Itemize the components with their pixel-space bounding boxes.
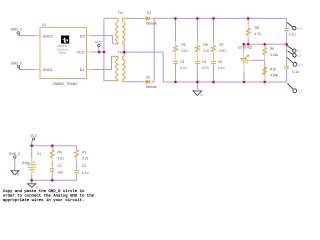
svg-text:R6: R6 <box>203 43 207 47</box>
svg-text:0_5: 0_5 <box>297 54 302 57</box>
svg-text:order to connect the Analog GN: order to connect the Analog GND to the <box>3 193 95 198</box>
svg-text:SN6501_TRANS: SN6501_TRANS <box>53 82 79 86</box>
svg-text:0.1u: 0.1u <box>293 70 300 74</box>
svg-text:0: 0 <box>201 93 203 97</box>
svg-text:Tx2: Tx2 <box>118 51 124 55</box>
svg-text:C1: C1 <box>58 164 62 168</box>
svg-text:0.1u: 0.1u <box>82 171 89 175</box>
svg-text:VCC: VCC <box>30 134 38 138</box>
svg-text:10u: 10u <box>58 170 64 174</box>
svg-text:Dbreak: Dbreak <box>146 85 157 89</box>
svg-text:R4: R4 <box>58 150 62 154</box>
svg-text:0: 0 <box>36 185 38 189</box>
svg-text:GND_0: GND_0 <box>9 152 20 156</box>
svg-text:0.01: 0.01 <box>82 156 89 160</box>
svg-text:D2: D2 <box>80 34 85 38</box>
svg-text:R7: R7 <box>220 43 224 47</box>
svg-text:appropriate wires in your circ: appropriate wires in your circuit. <box>3 198 85 203</box>
svg-text:0_5: 0_5 <box>298 90 303 93</box>
svg-text:C3: C3 <box>180 60 184 64</box>
svg-text:0_5v: 0_5v <box>297 27 303 30</box>
svg-text:0.01: 0.01 <box>182 49 189 53</box>
svg-text:D2: D2 <box>146 76 150 80</box>
svg-text:V1: V1 <box>37 152 41 156</box>
svg-text:D1: D1 <box>147 11 151 15</box>
svg-text:5Vdc: 5Vdc <box>22 161 30 165</box>
svg-text:GND_0: GND_0 <box>11 62 22 66</box>
svg-text:4.7u: 4.7u <box>180 66 187 70</box>
svg-text:3.01k: 3.01k <box>270 53 278 57</box>
svg-text:D1: D1 <box>80 68 85 72</box>
svg-text:Dbreak: Dbreak <box>146 22 157 26</box>
svg-text:Model: Model <box>58 51 66 55</box>
svg-text:U1: U1 <box>42 23 46 27</box>
svg-text:VCC: VCC <box>77 51 85 55</box>
svg-text:GND1: GND1 <box>43 68 53 72</box>
svg-text:0.01: 0.01 <box>203 49 210 53</box>
svg-text:0.01: 0.01 <box>58 156 65 160</box>
svg-text:4.7k: 4.7k <box>255 32 262 36</box>
svg-text:4.99k: 4.99k <box>270 74 278 78</box>
svg-text:0: 0 <box>17 173 19 177</box>
svg-text:C4: C4 <box>202 60 206 64</box>
svg-text:R5: R5 <box>182 43 186 47</box>
svg-text:VCC: VCC <box>95 40 103 44</box>
svg-text:0.1u: 0.1u <box>289 32 296 36</box>
svg-text:C2: C2 <box>82 164 86 168</box>
svg-text:R8: R8 <box>255 26 259 30</box>
svg-text:0.01: 0.01 <box>220 49 227 53</box>
svg-text:C6: C6 <box>218 60 222 64</box>
svg-text:GND_0: GND_0 <box>11 28 22 32</box>
svg-text:0.1u: 0.1u <box>218 66 225 70</box>
svg-text:GND2: GND2 <box>43 34 53 38</box>
svg-text:0_5v: 0_5v <box>298 64 304 67</box>
svg-text:R10: R10 <box>270 68 276 72</box>
svg-text:Copy and paste the GND_0 circl: Copy and paste the GND_0 circle in <box>3 189 85 194</box>
svg-text:R9: R9 <box>270 47 274 51</box>
svg-text:U2 TL431: U2 TL431 <box>238 46 253 50</box>
svg-text:R3: R3 <box>82 150 86 154</box>
svg-text:Tx1: Tx1 <box>118 11 124 15</box>
svg-text:0_5: 0_5 <box>297 50 302 53</box>
svg-text:4.7u: 4.7u <box>202 66 209 70</box>
